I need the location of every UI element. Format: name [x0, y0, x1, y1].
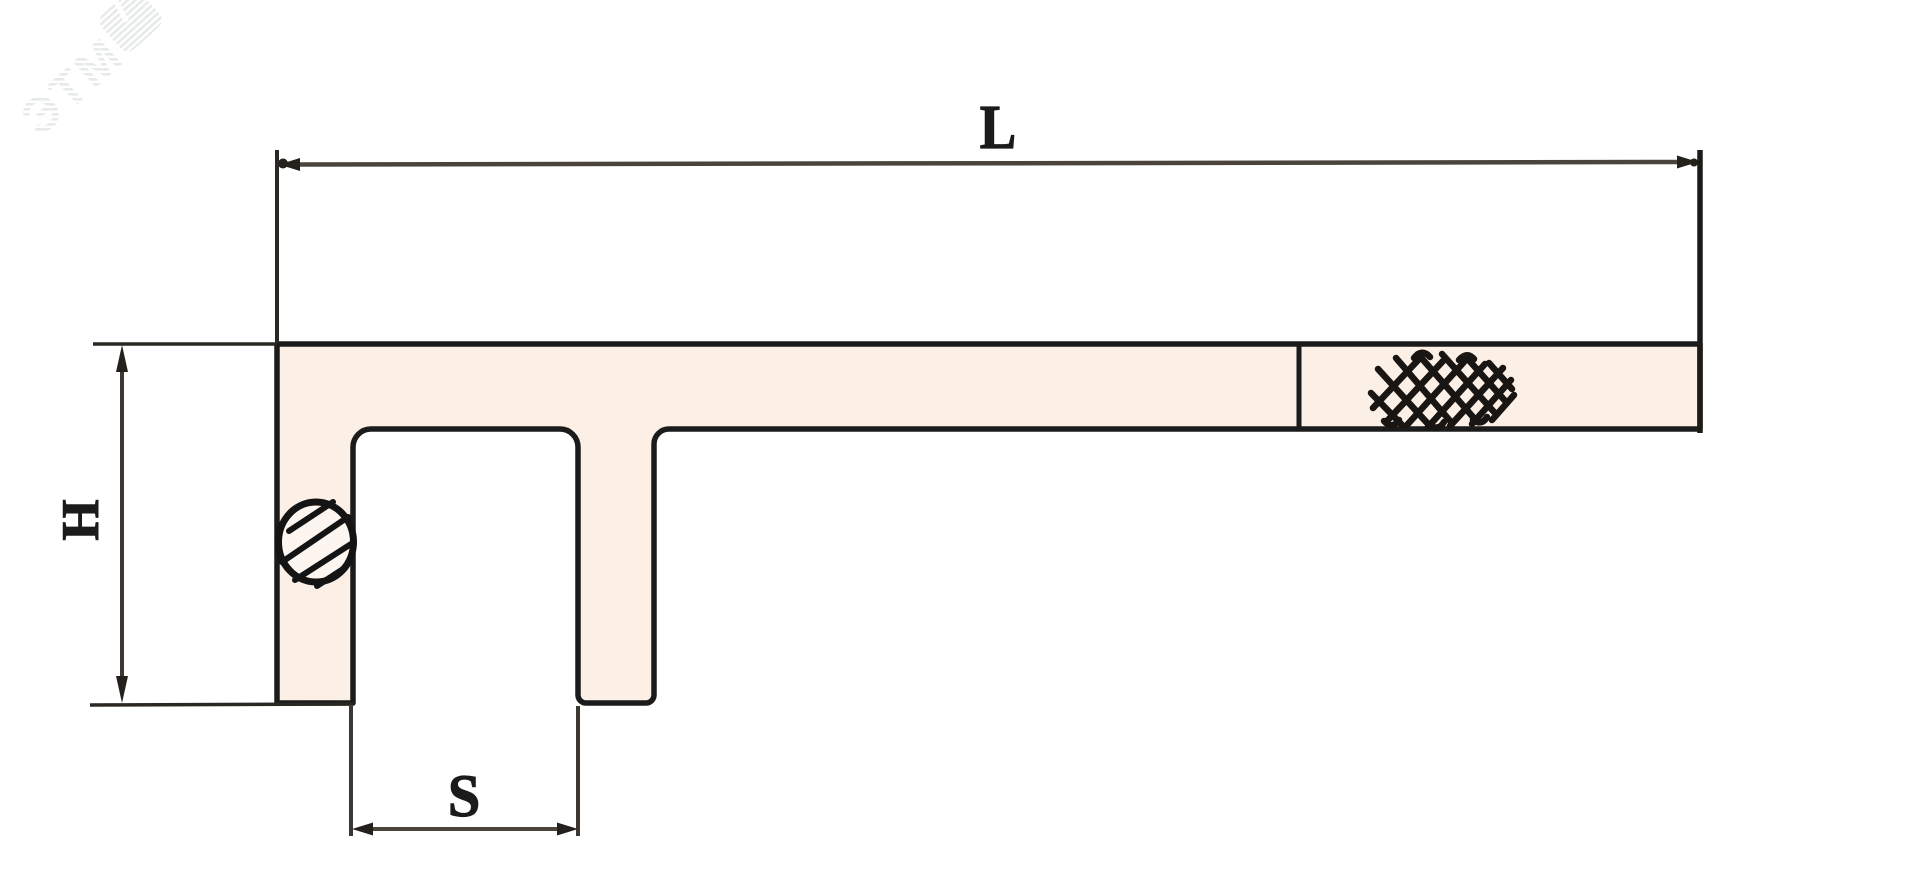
svg-text:S: S: [448, 762, 480, 829]
H extension line top: [93, 342, 277, 346]
divider line between handle and knurled section: [1297, 346, 1302, 427]
part body fill: [277, 344, 1700, 703]
svg-text:H: H: [52, 499, 110, 540]
L dimension line: [278, 156, 1698, 172]
H dimension line: [116, 345, 128, 703]
knurl cross-hatch: [1371, 353, 1514, 428]
S extension lines: [349, 706, 353, 836]
pin circle with hatching: [279, 502, 354, 586]
H extension line bottom: [90, 704, 353, 705]
svg-text:L: L: [980, 93, 1016, 162]
S dimension line: [352, 823, 578, 836]
L extension line right: [1697, 150, 1703, 433]
svg-text:ЭТМ: ЭТМ: [10, 26, 134, 146]
L extension line left: [275, 150, 279, 343]
part outline: [277, 344, 1700, 703]
watermark ETM: [4, 0, 176, 146]
